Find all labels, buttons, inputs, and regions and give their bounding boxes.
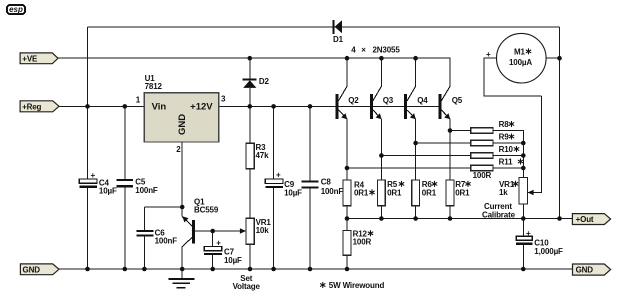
svg-text:100µA: 100µA: [509, 58, 532, 67]
svg-text:1,000µF: 1,000µF: [534, 247, 563, 256]
wire U1 pin2: [181, 142, 183, 217]
svg-text:2: 2: [176, 145, 181, 154]
svg-text:R10: R10: [499, 145, 514, 154]
svg-text:3: 3: [221, 95, 226, 104]
svg-text:+Reg: +Reg: [22, 102, 41, 111]
wire +Out rail: [347, 218, 572, 220]
svg-text:Q3: Q3: [383, 96, 394, 105]
capacitor C5: [116, 178, 158, 195]
potentiometer VR1 10k: [233, 169, 272, 291]
transistor Q5: [438, 86, 462, 180]
diode D2: [242, 58, 269, 106]
svg-text:0R1: 0R1: [387, 188, 402, 197]
connector +Reg: [20, 101, 59, 112]
connector GND right: [573, 264, 611, 275]
svg-text:+: +: [276, 171, 281, 180]
regulator U1 7812: [136, 74, 226, 154]
capacitor C8: [302, 106, 344, 269]
capacitor C9: [265, 106, 302, 269]
wire emitter row R10: [381, 155, 470, 157]
resistor R9: [471, 133, 524, 146]
svg-text:Vin: Vin: [152, 102, 167, 113]
resistor R11: [471, 158, 524, 171]
diode D1: [333, 20, 344, 44]
svg-text:M1: M1: [514, 48, 526, 57]
svg-text:Q2: Q2: [348, 96, 359, 105]
svg-text:10µF: 10µF: [99, 186, 117, 195]
connector +Out: [572, 214, 610, 225]
svg-text:10µF: 10µF: [284, 189, 302, 198]
connector GND left: [20, 264, 59, 275]
svg-text:100nF: 100nF: [321, 187, 344, 196]
capacitor C4: [79, 171, 117, 196]
wire top rail from +Reg riser to right edge: [88, 26, 560, 28]
svg-text:1k: 1k: [499, 188, 508, 197]
svg-text:100R: 100R: [473, 171, 492, 180]
svg-text:R8: R8: [499, 120, 510, 129]
wire emitter row R9: [416, 142, 471, 144]
svg-text:GND: GND: [576, 266, 594, 275]
svg-text:C8: C8: [321, 178, 332, 187]
wire GND rail: [59, 268, 573, 270]
svg-text:5W Wirewound: 5W Wirewound: [329, 281, 385, 290]
svg-text:GND: GND: [23, 265, 41, 274]
capacitor C10: [516, 219, 563, 270]
svg-text:7812: 7812: [145, 82, 163, 91]
svg-text:+12V: +12V: [190, 102, 213, 113]
resistor R5: [378, 180, 404, 219]
wire emitter row R8: [450, 130, 471, 132]
wire C5 column: [124, 106, 126, 269]
svg-text:GND: GND: [177, 114, 188, 135]
svg-text:Voltage: Voltage: [233, 282, 261, 291]
svg-text:D2: D2: [259, 77, 270, 86]
svg-text:+: +: [486, 50, 491, 59]
wire +Reg rail to U1 pin1: [59, 105, 144, 107]
svg-text:100R: 100R: [353, 237, 372, 246]
svg-text:0R1: 0R1: [354, 188, 369, 197]
wire riser C4 column: [87, 27, 89, 269]
svg-text:10µF: 10µF: [224, 256, 242, 265]
svg-text:1: 1: [136, 96, 141, 105]
svg-text:D1: D1: [333, 35, 344, 44]
transistor Q3: [370, 58, 394, 180]
resistor R6: [412, 180, 437, 219]
wire emitter row R11: [347, 167, 471, 169]
wire right edge vertical: [559, 27, 561, 219]
transistor Q2: [336, 58, 360, 180]
transistor Q1 BC559: [182, 197, 246, 269]
capacitor C6: [137, 207, 183, 269]
capacitor C7: [204, 231, 242, 269]
svg-text:C9: C9: [284, 180, 295, 189]
resistor R3: [246, 106, 269, 168]
svg-text:BC559: BC559: [194, 205, 219, 214]
svg-text:100nF: 100nF: [155, 237, 178, 246]
svg-text:0R1: 0R1: [422, 188, 437, 197]
potentiometer VR1 1k: [482, 96, 541, 220]
svg-text:2N3055: 2N3055: [373, 45, 401, 54]
meter M1: [484, 33, 560, 95]
ground symbol: [169, 269, 195, 288]
connector +VE: [20, 53, 58, 64]
svg-text:100nF: 100nF: [135, 186, 158, 195]
wire +VE rail: [58, 58, 450, 86]
svg-text:0R1: 0R1: [455, 188, 470, 197]
resistor R10: [471, 145, 524, 158]
svg-text:4: 4: [351, 45, 356, 54]
svg-text:×: ×: [361, 45, 366, 54]
svg-text:Calibrate: Calibrate: [482, 210, 516, 219]
resistor R7: [446, 180, 470, 219]
resistor R12: [343, 219, 373, 270]
svg-text:R11: R11: [499, 158, 513, 167]
svg-text:Q5: Q5: [452, 96, 463, 105]
svg-text:+VE: +VE: [22, 54, 38, 63]
note 5W wirewound: [321, 281, 385, 290]
resistor R4: [343, 180, 374, 218]
svg-text:47k: 47k: [256, 151, 270, 160]
svg-text:10k: 10k: [256, 226, 270, 235]
esp logo: [7, 5, 25, 14]
resistor R8: [471, 120, 524, 177]
transistor Q4: [404, 58, 428, 180]
svg-text:Q4: Q4: [417, 96, 428, 105]
svg-text:esp: esp: [9, 5, 23, 14]
svg-text:R9: R9: [499, 133, 510, 142]
svg-text:+Out: +Out: [576, 215, 594, 224]
wire U1 pin3 base rail: [219, 105, 439, 107]
